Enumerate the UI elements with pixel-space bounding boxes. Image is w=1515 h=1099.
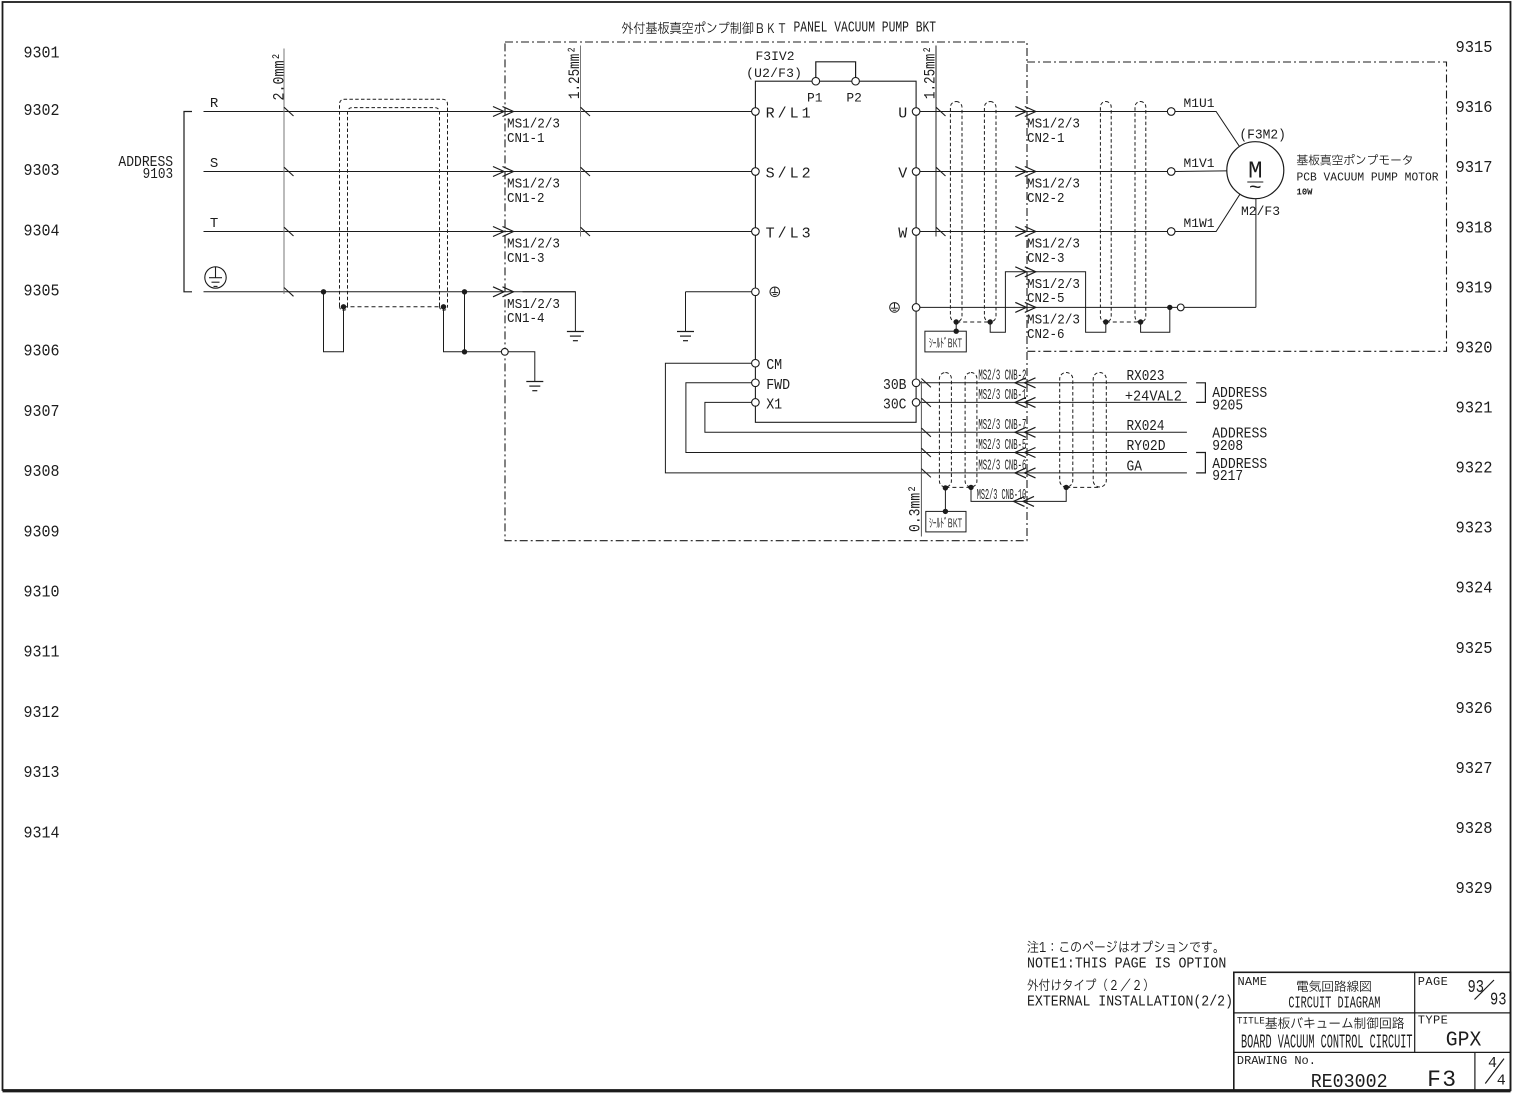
svg-text:9325: 9325	[1456, 640, 1493, 659]
svg-text:MS2/3 CNB-6: MS2/3 CNB-6	[978, 458, 1026, 475]
svg-text:2.0mm²: 2.0mm²	[270, 53, 288, 101]
wire U phase output	[920, 111, 1168, 113]
terminal R/L1	[752, 108, 760, 116]
title block frame	[1234, 972, 1511, 1090]
wire shield group1 to BKT	[955, 322, 957, 331]
svg-text:MS1/2/3: MS1/2/3	[1027, 118, 1080, 133]
svg-text:RX024: RX024	[1127, 418, 1165, 435]
terminal V	[912, 168, 920, 176]
svg-text:9319: 9319	[1456, 279, 1493, 298]
svg-text:F3: F3	[1427, 1067, 1456, 1093]
connector MS1/2/3 CN2-3 arrow	[1025, 227, 1036, 237]
junction shield group1 right leg	[988, 319, 993, 324]
svg-text:9301: 9301	[24, 45, 60, 64]
cable shield connector group2	[1106, 321, 1141, 323]
shield BKT box control	[926, 511, 966, 532]
connector MS2/3 CNB-1 arrow	[1015, 397, 1026, 407]
note JP external type	[1028, 979, 1147, 992]
svg-text:9318: 9318	[1456, 219, 1493, 238]
svg-text:~: ~	[1249, 178, 1262, 201]
jumper P1-P2	[816, 62, 856, 78]
svg-text:M1W1: M1W1	[1184, 216, 1215, 231]
connector MS2/3 CNB-10 arrow	[1014, 496, 1025, 506]
terminal earth left	[752, 288, 760, 296]
svg-text:PANEL VACUUM PUMP BKT: PANEL VACUUM PUMP BKT	[794, 21, 937, 37]
terminal P1	[812, 77, 820, 85]
svg-text:CN1-1: CN1-1	[507, 132, 545, 147]
svg-text:CN2-6: CN2-6	[1027, 328, 1065, 343]
terminal W	[912, 228, 920, 236]
svg-text:1.25mm²: 1.25mm²	[921, 46, 939, 99]
motor boundary box	[1027, 62, 1447, 351]
svg-text:X1: X1	[766, 396, 782, 413]
svg-text:9308: 9308	[24, 463, 60, 482]
input cable shield	[340, 99, 448, 306]
wire shield drain right to PE	[444, 308, 502, 352]
junction CN2-6 drain	[1167, 305, 1172, 310]
wire CM to GA	[665, 363, 1187, 473]
svg-text:CN2-2: CN2-2	[1027, 192, 1065, 207]
control cable shield group1	[939, 373, 951, 488]
svg-text:MS2/3 CNB-5: MS2/3 CNB-5	[978, 437, 1026, 454]
svg-text:9303: 9303	[24, 162, 60, 181]
svg-text:30C: 30C	[883, 396, 907, 413]
svg-text:9322: 9322	[1456, 460, 1493, 479]
svg-text:TYPE: TYPE	[1418, 1013, 1448, 1027]
svg-text:MS1/2/3: MS1/2/3	[1027, 314, 1080, 329]
cable shield connector group1	[956, 321, 990, 323]
svg-text:9217: 9217	[1212, 468, 1243, 485]
terminal X1	[752, 399, 760, 407]
svg-text:9304: 9304	[24, 222, 60, 241]
svg-text:9305: 9305	[24, 283, 60, 302]
svg-text:CN1-3: CN1-3	[507, 252, 545, 267]
junction shield drain left	[341, 304, 346, 309]
terminal U	[912, 108, 920, 116]
ground G2	[677, 331, 694, 333]
svg-text:RE03002: RE03002	[1311, 1071, 1388, 1093]
svg-text:MS1/2/3: MS1/2/3	[1027, 178, 1080, 193]
wire V phase output	[920, 171, 1168, 173]
wire PE earth	[204, 291, 576, 293]
svg-text:9314: 9314	[24, 824, 60, 843]
control cable shield connector group1	[945, 486, 971, 488]
svg-text:9307: 9307	[24, 403, 60, 422]
wire gauge 0.3mm2 mark	[920, 381, 922, 537]
connector MS1/2/3 CN2-2 arrow	[1025, 167, 1036, 177]
svg-text:EXTERNAL INSTALLATION(2/2): EXTERNAL INSTALLATION(2/2)	[1027, 994, 1233, 1010]
svg-text:9321: 9321	[1456, 400, 1493, 419]
svg-text:MS2/3 CNB-7: MS2/3 CNB-7	[978, 417, 1026, 434]
svg-text:NOTE1:THIS PAGE IS OPTION: NOTE1:THIS PAGE IS OPTION	[1027, 957, 1226, 973]
svg-text:9323: 9323	[1456, 520, 1493, 539]
svg-text:GPX: GPX	[1446, 1030, 1482, 1053]
junction shield group1 left leg	[954, 319, 959, 324]
svg-text:MS2/3 CNB-2: MS2/3 CNB-2	[978, 368, 1026, 385]
svg-text:M1U1: M1U1	[1184, 96, 1215, 111]
svg-text:9329: 9329	[1456, 880, 1493, 899]
connector MS1/2/3 CN1-2 arrow	[503, 167, 514, 177]
output cable shield group2	[1100, 102, 1111, 323]
connector MS2/3 CNB-7 arrow	[1015, 427, 1026, 437]
svg-text:9326: 9326	[1456, 700, 1493, 719]
wire S phase	[204, 171, 752, 173]
svg-text:9313: 9313	[24, 764, 60, 783]
connector MS2/3 CNB-6 arrow	[1015, 468, 1026, 478]
panel boundary box PANEL VACUUM PUMP BKT	[505, 42, 1027, 541]
svg-text:9317: 9317	[1456, 159, 1493, 178]
terminal S/L2	[752, 168, 760, 176]
junction shield group2 left leg	[1103, 319, 1108, 324]
svg-text:MS1/2/3: MS1/2/3	[507, 118, 560, 133]
wire feedthrough to ground	[508, 352, 535, 382]
svg-text:9328: 9328	[1456, 820, 1493, 839]
svg-text:BOARD VACUUM CONTROL CIRCUIT: BOARD VACUUM CONTROL CIRCUIT	[1241, 1031, 1413, 1053]
connector MS1/2/3 CN2-6 arrow	[1025, 302, 1036, 312]
svg-text:93: 93	[1468, 978, 1485, 998]
panel title 外付基板真空ポンプ制御BKT	[622, 21, 753, 34]
terminal CM	[752, 359, 760, 367]
svg-text:CN1-2: CN1-2	[507, 192, 545, 207]
terminal M1W1	[1167, 228, 1175, 236]
wire gauge 1.25mm2 mark input	[580, 46, 582, 237]
inverter U1 F3IV2 (U2/F3) body	[755, 81, 916, 422]
control cable shield group2	[1060, 373, 1073, 488]
svg-text:U: U	[898, 106, 907, 123]
terminal 30B	[912, 379, 920, 387]
svg-text:T: T	[210, 216, 218, 232]
terminal feedthrough 9306	[501, 348, 508, 355]
wire W phase output	[920, 231, 1168, 233]
wire CNB-10 shield link	[971, 487, 1066, 501]
svg-text:P2: P2	[846, 90, 862, 105]
svg-text:P1: P1	[807, 90, 823, 105]
svg-text:30B: 30B	[883, 377, 907, 394]
svg-text:MS1/2/3: MS1/2/3	[1027, 238, 1080, 253]
terminal M2/F3 feedthrough	[1177, 304, 1184, 311]
svg-text:NAME: NAME	[1238, 975, 1268, 989]
svg-text:CN2-5: CN2-5	[1027, 292, 1065, 307]
wire shield drain left to PE	[324, 292, 344, 352]
svg-text:CM: CM	[766, 357, 782, 374]
svg-text:R: R	[210, 96, 219, 112]
wire control shield to BKT	[944, 488, 946, 512]
connector MS2/3 CNB-2 arrow	[1015, 378, 1026, 388]
bracket ADDRESS 9205	[1196, 383, 1205, 403]
svg-text:MS1/2/3: MS1/2/3	[507, 238, 560, 253]
svg-text:9306: 9306	[24, 343, 60, 362]
wire gauge 2.0mm2 mark	[283, 49, 285, 295]
wire 30C to +24VAL2	[920, 401, 1187, 403]
wire FWD to RY02D	[686, 383, 1187, 453]
svg-text:RX023: RX023	[1127, 368, 1165, 385]
note JP option	[1028, 941, 1217, 954]
svg-text:1.25mm²: 1.25mm²	[566, 46, 584, 99]
svg-text:+24VAL2: +24VAL2	[1125, 388, 1182, 405]
svg-text:F3IV2: F3IV2	[756, 49, 795, 64]
svg-text:9315: 9315	[1456, 39, 1493, 58]
svg-text:GA: GA	[1127, 459, 1143, 476]
input cable shield connector	[344, 306, 444, 308]
svg-text:93: 93	[1490, 991, 1507, 1011]
terminal 30C	[912, 399, 920, 407]
svg-text:9320: 9320	[1456, 339, 1493, 358]
svg-text:M2/F3: M2/F3	[1241, 204, 1280, 219]
svg-text:M1V1: M1V1	[1184, 156, 1215, 171]
wire 30B to RX023	[920, 382, 1187, 384]
svg-text:9208: 9208	[1212, 438, 1243, 455]
terminal P2	[852, 77, 860, 85]
svg-text:9309: 9309	[24, 523, 60, 542]
svg-text:MS1/2/3: MS1/2/3	[507, 178, 560, 193]
svg-text:10W: 10W	[1297, 188, 1314, 198]
connector MS1/2/3 CN2-1 arrow	[1025, 107, 1036, 117]
wire M2/F3 to motor	[1184, 306, 1256, 308]
svg-text:4: 4	[1497, 1073, 1506, 1090]
wire R phase	[204, 111, 752, 113]
svg-text:(U2/F3): (U2/F3)	[746, 66, 802, 81]
svg-text:CIRCUIT DIAGRAM: CIRCUIT DIAGRAM	[1288, 994, 1380, 1013]
connector MS1/2/3 CN1-1 arrow	[503, 107, 514, 117]
wire shield group2 right leg drain	[1141, 307, 1170, 332]
motor M1 F3M2 PCB vacuum pump motor	[1227, 142, 1284, 199]
wire M1V1 to motor	[1175, 171, 1255, 172]
ground G1	[567, 331, 584, 333]
wire CN2-5 shield link	[990, 272, 1106, 332]
wire M1U1 to motor	[1175, 112, 1255, 171]
label motor name JP	[1297, 154, 1412, 166]
svg-text:9312: 9312	[24, 704, 60, 723]
terminal M1V1	[1167, 168, 1175, 176]
label 基板バキューム制御回路	[1265, 1017, 1404, 1029]
svg-text:MS1/2/3: MS1/2/3	[507, 298, 560, 313]
node ADDRESS 9103 bracket	[184, 112, 192, 292]
svg-text:W: W	[898, 226, 907, 243]
svg-text:MS1/2/3: MS1/2/3	[1027, 278, 1080, 293]
svg-text:FWD: FWD	[766, 377, 790, 394]
svg-text:MS2/3 CNB-1: MS2/3 CNB-1	[978, 387, 1026, 404]
terminal M1U1	[1167, 108, 1175, 116]
svg-text:CN1-4: CN1-4	[507, 312, 545, 327]
wire M1W1 to motor	[1175, 170, 1255, 231]
svg-text:PCB VACUUM PUMP MOTOR: PCB VACUUM PUMP MOTOR	[1297, 172, 1439, 185]
wire CN1-4 to ground	[523, 292, 576, 332]
svg-text:9103: 9103	[143, 166, 174, 183]
connector MS1/2/3 CN2-5 arrow	[1025, 267, 1036, 277]
svg-text:0.3mm²: 0.3mm²	[907, 485, 925, 532]
svg-text:DRAWING No.: DRAWING No.	[1237, 1054, 1316, 1068]
wire T phase	[204, 231, 752, 233]
svg-text:TITLE: TITLE	[1237, 1015, 1265, 1027]
svg-text:9310: 9310	[24, 584, 60, 603]
svg-text:CN2-3: CN2-3	[1027, 252, 1065, 267]
shield BKT box power	[925, 331, 966, 352]
connector MS1/2/3 CN1-4 arrow	[503, 287, 514, 297]
svg-text:9316: 9316	[1456, 99, 1493, 118]
connector MS2/3 CNB-5 arrow	[1015, 448, 1026, 458]
svg-text:V: V	[898, 166, 907, 183]
svg-text:(F3M2): (F3M2)	[1239, 128, 1286, 144]
wire X1 to RX024	[705, 402, 1187, 432]
svg-text:9324: 9324	[1456, 580, 1493, 599]
wire inverter earth to ground	[686, 291, 752, 293]
svg-text:S: S	[210, 156, 218, 172]
svg-text:MS2/3 CNB-10: MS2/3 CNB-10	[977, 487, 1026, 504]
terminal FWD	[752, 379, 760, 387]
terminal T/L3	[752, 228, 760, 236]
connector MS1/2/3 CN1-3 arrow	[503, 227, 514, 237]
svg-text:9311: 9311	[24, 644, 60, 663]
terminal earth right	[912, 304, 920, 312]
bracket ADDRESS 9217	[1196, 453, 1205, 473]
svg-text:PAGE: PAGE	[1418, 975, 1448, 989]
protective earth symbol	[205, 267, 226, 288]
svg-text:9327: 9327	[1456, 760, 1493, 779]
svg-text:CN2-1: CN2-1	[1027, 132, 1065, 147]
output cable shield group1	[950, 102, 962, 323]
wire gauge 1.25mm2 mark output	[935, 46, 937, 237]
wire CN2-6 earth link	[920, 306, 1177, 308]
control cable shield connector group2	[1066, 486, 1100, 488]
svg-text:9302: 9302	[24, 102, 60, 121]
svg-text:9205: 9205	[1212, 397, 1243, 414]
label 電気回路線図	[1297, 980, 1371, 992]
ground G3	[526, 381, 543, 383]
svg-text:RY02D: RY02D	[1127, 438, 1166, 455]
